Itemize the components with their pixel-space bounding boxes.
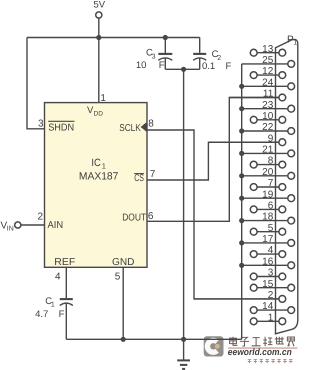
svg-text:1: 1 [268,312,274,323]
5V supply terminal [96,12,102,18]
svg-text:19: 19 [262,189,274,200]
connector pin 19 [239,189,295,201]
connector pin 16 [239,256,295,268]
connector pin 9 [208,133,285,145]
capacitor C3 [136,38,172,71]
connector pin 2 [194,290,286,302]
svg-text:DOUT: DOUT [122,212,146,223]
svg-text:18: 18 [262,212,274,223]
svg-text:6: 6 [148,211,154,222]
wire 5V lead to VDD pin 1 [98,18,100,102]
connector pin 13 [250,44,285,56]
connector pin 6 [250,201,285,213]
svg-text:22: 22 [262,122,274,133]
svg-text:IC: IC [91,157,101,169]
svg-text:4.7: 4.7 [35,309,48,320]
svg-text:13: 13 [262,44,274,55]
svg-text:DD: DD [94,111,104,118]
svg-text:IN: IN [7,226,14,233]
connector pin 20 [239,167,295,179]
connector pin 21 [239,145,295,157]
wire GND pin 5 drop [122,267,124,339]
connector pin 12 [250,66,285,78]
svg-text:11: 11 [263,89,274,100]
wire left drop to SHDN pin 3 [27,38,45,129]
svg-text:CS: CS [134,173,144,184]
connector pin 18 [239,212,295,224]
connector P1 body [276,39,298,333]
svg-text:17: 17 [262,234,274,245]
svg-text:F: F [59,309,65,320]
svg-text:7: 7 [150,169,156,180]
svg-text:MAX187: MAX187 [79,171,119,183]
svg-text:4: 4 [268,245,274,256]
watermark slogan [248,359,293,363]
capacitor C1 [35,267,73,339]
svg-text:4: 4 [55,272,61,283]
node junction GND rail [121,337,126,342]
connector pin 24 [239,77,295,89]
svg-text:12: 12 [262,66,274,77]
connector pin 14 [250,301,294,313]
connector pin 4 [250,245,285,257]
svg-text:1: 1 [293,40,297,47]
svg-text:1: 1 [51,302,55,309]
watermark eeworld logo [204,336,224,356]
svg-text:1: 1 [102,161,106,170]
connector pin 23 [239,100,295,112]
svg-text:0.1: 0.1 [202,61,215,72]
svg-text:15: 15 [262,279,274,290]
svg-text:14: 14 [262,301,274,312]
connector pin 3 [250,268,285,280]
connector pin 11 [229,89,285,101]
connector pin 25 [242,55,295,67]
svg-text:3: 3 [268,268,274,279]
svg-text:8: 8 [148,119,154,130]
wire 5V top rail [27,37,200,39]
svg-text:6: 6 [268,201,274,212]
svg-text:5V: 5V [93,0,105,11]
wire DOUT pin 6 to connector pin 11 [147,98,279,222]
node junction 5V rail [96,35,101,40]
svg-text:23: 23 [262,100,274,111]
svg-text:8: 8 [268,156,274,167]
node junction C3 top [163,35,168,40]
connector pin 10 [250,111,285,123]
wire bottom ground rail [66,338,241,340]
SCLK clock arrow [141,122,147,132]
svg-text:2: 2 [37,212,43,223]
wire CS pin 7 to connector pin 9 [147,142,279,180]
svg-text:F: F [159,60,165,71]
svg-text:eeworld.com.cn: eeworld.com.cn [228,347,292,357]
node junction cap ground [181,67,186,72]
connector pin 8 [250,156,285,168]
svg-text:16: 16 [262,256,274,267]
svg-text:21: 21 [262,145,274,156]
watermark underline [228,347,298,349]
svg-text:REF: REF [54,257,75,268]
svg-text:3: 3 [152,53,156,60]
svg-text:SHDN: SHDN [48,123,74,134]
svg-text:2: 2 [217,55,221,62]
connector pin 7 [250,178,285,190]
svg-text:10: 10 [262,111,274,122]
wire connector ground bus [241,64,243,339]
connector pin 17 [239,234,295,246]
svg-text:25: 25 [262,55,274,66]
ground symbol [177,339,190,369]
wire VIN to AIN pin 2 [21,224,45,226]
capacitor C2 [193,38,231,72]
IC IC1 MAX187 body [45,103,148,268]
svg-text:5: 5 [268,223,274,234]
svg-text:1: 1 [100,93,106,104]
svg-text:3: 3 [38,118,44,129]
svg-text:2: 2 [268,290,274,301]
svg-text:24: 24 [262,77,274,88]
svg-text:20: 20 [262,167,274,178]
svg-text:7: 7 [268,178,274,189]
connector pin 5 [250,223,285,235]
wire capacitor bottoms [165,68,199,70]
connector pin 15 [250,279,294,291]
watermark chinese title [230,337,295,347]
svg-text:F: F [226,61,232,72]
svg-text:AIN: AIN [48,220,64,231]
svg-text:5: 5 [115,272,121,283]
node junction cap drop rail [181,337,186,342]
wire SCLK pin 8 to connector pin 2 [147,130,279,299]
svg-text:10: 10 [136,60,147,71]
wire cap ground drop [183,69,185,339]
svg-text:9: 9 [268,133,274,144]
connector pin 22 [239,122,295,134]
connector pin 1 [250,312,285,324]
svg-text:SCLK: SCLK [119,123,141,134]
svg-text:GND: GND [112,257,135,268]
